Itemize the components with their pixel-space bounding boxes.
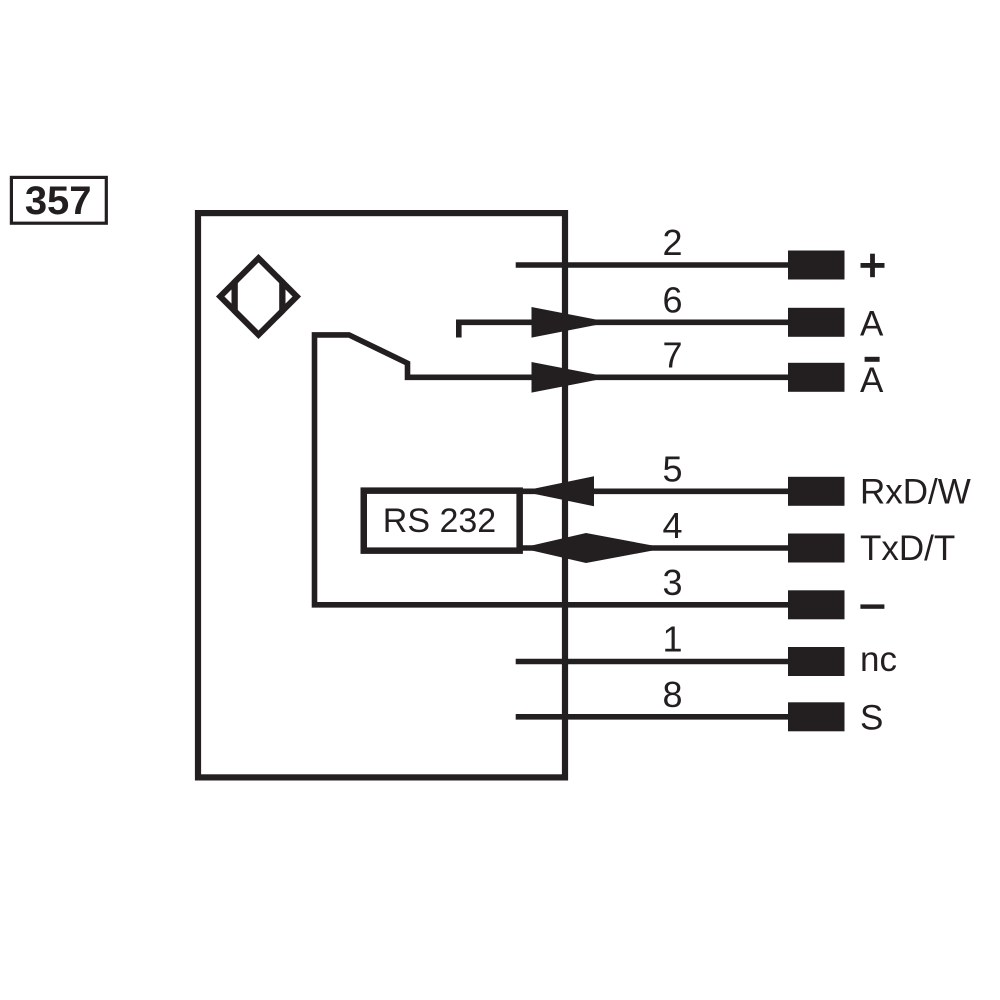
svg-text:8: 8	[662, 674, 682, 715]
svg-text:1: 1	[662, 619, 682, 660]
svg-text:2: 2	[662, 222, 682, 263]
svg-text:RxD/W: RxD/W	[860, 473, 971, 512]
svg-text:A: A	[860, 361, 884, 400]
svg-text:TxD/T: TxD/T	[860, 529, 955, 568]
svg-text:A: A	[860, 305, 884, 344]
svg-text:6: 6	[662, 279, 682, 320]
svg-text:nc: nc	[860, 640, 897, 679]
svg-text:S: S	[860, 699, 883, 738]
svg-text:5: 5	[662, 448, 682, 489]
svg-text:7: 7	[662, 334, 682, 375]
svg-text:357: 357	[25, 179, 92, 223]
svg-text:4: 4	[662, 505, 682, 546]
svg-text:3: 3	[662, 562, 682, 603]
svg-text:RS 232: RS 232	[383, 502, 496, 540]
